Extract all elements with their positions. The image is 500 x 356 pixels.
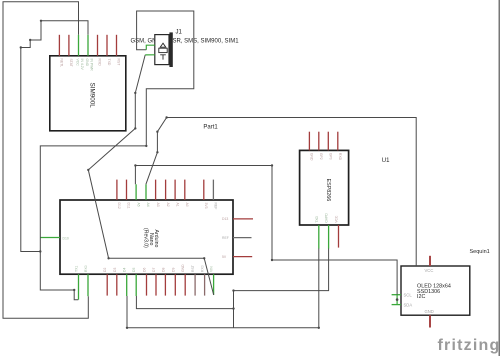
- svg-text:GND: GND: [425, 309, 434, 314]
- svg-text:GSM, GNE, GPSR, SMS, SIM900, S: GSM, GNE, GPSR, SMS, SIM900, SIM1: [131, 39, 240, 45]
- OLED pin labels: [404, 268, 434, 314]
- svg-text:D11: D11: [127, 203, 131, 209]
- svg-text:D9: D9: [171, 268, 175, 272]
- antenna symbol rect: [159, 48, 167, 52]
- svg-text:VCC: VCC: [335, 215, 339, 223]
- svg-text:D4: D4: [123, 268, 127, 272]
- svg-text:A0: A0: [185, 203, 189, 207]
- svg-text:Part1: Part1: [203, 124, 218, 130]
- SIM900L pin labels: [60, 59, 121, 72]
- svg-text:D13: D13: [222, 217, 228, 221]
- svg-text:RST: RST: [117, 59, 121, 66]
- svg-text:A4: A4: [146, 203, 150, 207]
- antenna J1: [131, 30, 240, 68]
- svg-text:A5: A5: [136, 203, 140, 207]
- svg-text:GP0: GP0: [329, 153, 333, 160]
- svg-text:3V3: 3V3: [204, 203, 208, 209]
- wire net SCL: Arduino A5 pin to OLED SCL/SDA: [135, 166, 397, 295]
- wire green segment SCL-SDA: [396, 295, 398, 305]
- OLED SDA pin: [392, 304, 401, 306]
- svg-text:GND: GND: [310, 153, 314, 161]
- svg-text:RX0: RX0: [84, 265, 88, 272]
- ESP8266 U1: [300, 132, 349, 249]
- svg-text:A2: A2: [166, 203, 170, 207]
- svg-text:REF: REF: [222, 236, 229, 240]
- Arduino Nano: [41, 180, 254, 300]
- svg-text:VCC: VCC: [76, 59, 80, 67]
- svg-text:D12: D12: [117, 203, 121, 209]
- svg-text:A3: A3: [156, 203, 160, 207]
- svg-text:D7: D7: [152, 268, 156, 272]
- svg-text:STAT: STAT: [69, 59, 73, 67]
- svg-text:RXD: RXD: [98, 59, 102, 67]
- Arduino left pin: [41, 237, 61, 239]
- svg-text:fritzing: fritzing: [438, 337, 500, 354]
- svg-text:SIM900L: SIM900L: [89, 83, 96, 109]
- wire green segment J1 pin1: [146, 45, 155, 50]
- wire net ESP TXD to Arduino D4 outer loop: [127, 249, 319, 328]
- wire net J1 pin2 diagonal across Arduino: [88, 55, 213, 295]
- svg-text:TX1: TX1: [75, 266, 79, 272]
- svg-text:D6: D6: [143, 268, 147, 272]
- svg-text:RST: RST: [191, 265, 195, 272]
- svg-text:U1: U1: [382, 158, 390, 164]
- Arduino bottom pins: [79, 274, 214, 299]
- svg-text:NETL: NETL: [60, 59, 64, 68]
- OLED SCL pin: [392, 294, 401, 296]
- svg-text:D2: D2: [103, 268, 107, 272]
- antenna symbol triangle: [160, 43, 166, 47]
- right edge border line: [498, 0, 500, 356]
- svg-text:(Rev3.0): (Rev3.0): [143, 228, 149, 248]
- ESP bottom pin labels: [315, 213, 339, 223]
- OLED text: [417, 283, 451, 300]
- svg-text:CHPD: CHPD: [325, 213, 329, 223]
- wire net ESP CHPD to Arduino D5 inner loop: [136, 249, 328, 328]
- svg-text:ESP8266: ESP8266: [325, 179, 331, 202]
- OLED VCC pin: [429, 256, 431, 266]
- ESP top pins: [309, 132, 337, 151]
- svg-text:Sequin1: Sequin1: [470, 249, 490, 255]
- ESP bottom pins: [319, 225, 339, 249]
- svg-text:RX0: RX0: [201, 265, 205, 272]
- ESP top pin labels: [310, 153, 342, 161]
- wire green segment J1 pin2: [145, 54, 155, 56]
- svg-text:J1: J1: [176, 30, 183, 36]
- svg-text:RXD: RXD: [338, 153, 342, 161]
- OLED display: [392, 256, 470, 328]
- Arduino right pins: [233, 219, 253, 257]
- wire net J1 pin1 big loop to Arduino TX1: [40, 11, 194, 300]
- svg-text:GND: GND: [181, 264, 185, 272]
- svg-text:A1: A1: [175, 203, 179, 207]
- Arduino top pins: [117, 180, 213, 200]
- svg-text:SCL: SCL: [404, 293, 413, 298]
- svg-text:TXD: TXD: [315, 215, 319, 222]
- junction bendpoint dots: [20, 20, 399, 329]
- svg-text:D8: D8: [161, 268, 165, 272]
- wire net Part1: Arduino A4 pin to OLED box: [146, 118, 416, 267]
- Arduino label: [143, 228, 160, 248]
- svg-text:SDA: SDA: [404, 303, 413, 308]
- svg-text:IN PWR: IN PWR: [89, 59, 93, 72]
- svg-text:VCC: VCC: [425, 268, 434, 273]
- svg-text:D10: D10: [63, 236, 69, 240]
- Arduino top pin labels: [117, 203, 218, 210]
- wire net SIM900L pin3 via left border to Arduino RX0: [3, 2, 88, 319]
- OLED GND pin: [429, 315, 431, 327]
- svg-text:D3: D3: [113, 268, 117, 272]
- antenna symbol T: [160, 55, 166, 60]
- svg-text:VIN: VIN: [210, 266, 214, 272]
- Arduino right pin labels: [222, 217, 229, 259]
- svg-text:IN 4.2V: IN 4.2V: [80, 59, 84, 71]
- svg-text:D5: D5: [132, 268, 136, 272]
- SIM900L module: [50, 35, 126, 131]
- svg-text:5V: 5V: [222, 255, 227, 259]
- wire net SIM900L pin4 staircase left: [21, 21, 88, 252]
- svg-text:GP2: GP2: [319, 153, 323, 160]
- svg-text:GND: GND: [85, 59, 89, 67]
- svg-text:I2C: I2C: [417, 294, 425, 300]
- SIM900L top pins: [59, 35, 116, 56]
- svg-text:TXD: TXD: [107, 59, 111, 66]
- svg-text:REF: REF: [214, 203, 218, 210]
- Arduino bottom pin labels: [75, 264, 214, 272]
